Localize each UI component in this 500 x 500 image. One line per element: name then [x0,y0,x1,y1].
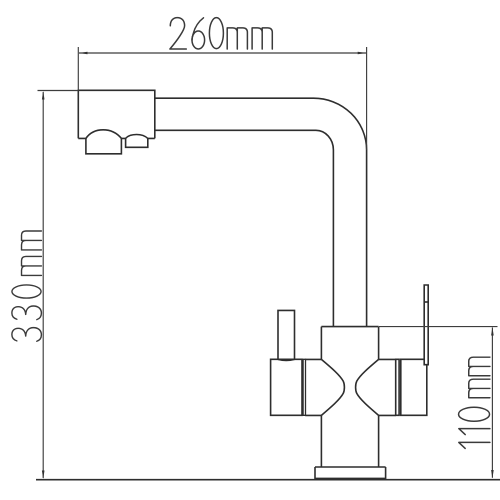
330mm dimension line [42,92,44,478]
body lower-left edge [320,415,322,467]
body upper-right edge [378,327,380,360]
small aerator body [126,138,148,147]
right handle base [401,359,427,415]
big aerator body [86,138,122,153]
body upper-left edge [320,327,322,360]
left step top edge [305,358,321,360]
baseline (counter top) [36,479,500,481]
spout pipe outer edge (top + bend + right side) [155,98,367,326]
left handle base [271,359,302,415]
left lever base dip [278,359,295,360]
arrow 110 bottom [491,470,494,479]
text 110mm (rotated) [459,357,490,448]
spout pipe inner edge (bottom + bend + left side) [155,130,334,326]
right lever tick [424,301,428,303]
330mm top extension line [38,90,79,92]
260mm dimension line [79,52,366,54]
right adapter strip [396,359,399,415]
110mm dimension line [491,328,493,478]
right flat lever [424,285,428,365]
big aerator dome [86,130,122,139]
hourglass left curve [321,359,344,415]
left step bottom edge [305,414,321,416]
text 330mm (rotated) [12,231,42,341]
body lower-right edge [378,415,380,467]
arrow 260 right [358,52,367,55]
260mm left extension line [77,47,79,90]
left handle lever [278,310,295,359]
small aerator dome [126,135,148,139]
110mm top extension line [379,326,498,328]
260mm right extension line [366,47,368,150]
arrow 330 top [42,91,45,100]
left adapter strip [303,359,305,415]
right step bottom edge [379,414,396,416]
arrow 330 bottom [42,471,45,480]
spout head box [78,90,155,138]
head box bottom edge segments [78,137,155,139]
arrow 260 left [79,52,88,55]
right step top edge [379,358,396,360]
body top edge [321,326,378,328]
hourglass right curve [356,359,379,415]
arrow 110 top [491,327,494,336]
base flange [315,467,386,478]
text 260mm [170,18,272,49]
